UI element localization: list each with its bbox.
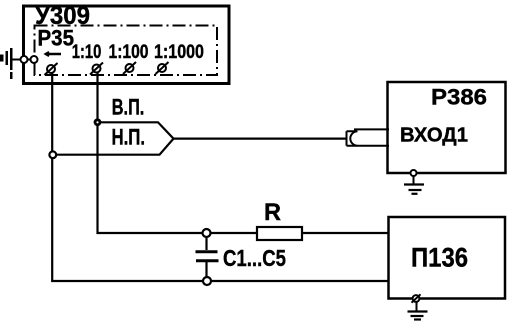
svg-text:Н.П.: Н.П. xyxy=(112,125,146,150)
svg-text:Р35: Р35 xyxy=(38,26,75,51)
svg-text:1:100: 1:100 xyxy=(109,42,149,63)
svg-text:Р386: Р386 xyxy=(431,85,487,110)
svg-text:В.П.: В.П. xyxy=(112,95,145,120)
svg-text:1:10: 1:10 xyxy=(72,42,102,63)
svg-text:ВХОД1: ВХОД1 xyxy=(400,125,468,147)
svg-text:С1...С5: С1...С5 xyxy=(223,245,286,271)
svg-text:П136: П136 xyxy=(411,243,468,273)
svg-text:1:1000: 1:1000 xyxy=(154,42,204,63)
svg-text:R: R xyxy=(264,199,281,226)
